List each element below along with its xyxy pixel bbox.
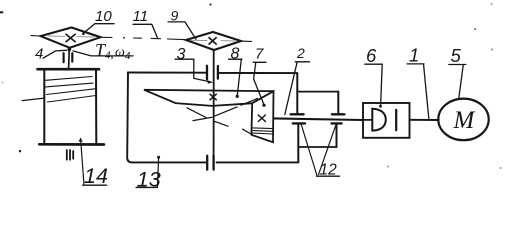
coupling 12b lower half [332,123,342,147]
wheel 9 (right rhombus) [186,32,241,50]
wire (vertical shaft from wheel 9) [213,50,215,156]
coupling (gearbox top line) [207,66,218,79]
svg-text:3: 3 [177,46,186,63]
brake 6 (box) [363,103,410,138]
svg-text:14: 14 [84,164,108,188]
cone generator line (dashed) [187,108,252,135]
svg-text:T4,ω4: T4,ω4 [95,40,131,62]
label 4 [35,45,67,62]
label 9 [168,7,196,39]
svg-text:7: 7 [255,46,264,63]
svg-text:6: 6 [366,45,377,66]
label 6 [365,45,383,108]
x mark on shaft [210,94,216,100]
coupling 12a lower half [293,123,305,161]
svg-text:9: 9 [171,7,179,23]
svg-text:8: 8 [231,46,240,63]
wire (stray leader to drum) [22,98,44,101]
label 12 [301,125,339,179]
drum 14 [38,69,104,144]
roller axis line (dashed) [193,99,258,121]
svg-text:4: 4 [35,45,43,62]
centerline 11 (dash-dot axis) [31,36,252,42]
coupling 12b upper half [332,92,344,115]
svg-text:1: 1 [409,44,419,65]
roller 7 [251,91,273,142]
svg-text:11: 11 [133,8,149,25]
label 14 [79,137,108,187]
label T4,w4 [73,40,133,62]
wire (drum shaft from wheel 10) [68,48,71,69]
wire (output shaft) [274,118,363,120]
bridge (upper) [297,91,338,93]
coupling 12a upper half [291,73,304,114]
label 5 [449,45,466,98]
motor 5 [438,99,488,141]
label 3 [175,46,213,84]
gearbox housing 13 (left and bottom and top run) [127,73,298,163]
bridge (lower) [298,146,336,148]
coupling (drum lower) [67,150,73,160]
label 8 [229,46,243,99]
wheel 10 (left rhombus) [41,28,101,48]
svg-text:5: 5 [451,45,462,66]
svg-text:2: 2 [296,45,305,61]
coupling (drum upper) [64,53,73,62]
label 11 [133,8,158,39]
svg-text:M: M [453,107,476,134]
scan specks [0,3,502,169]
svg-text:10: 10 [95,8,112,25]
label 10 [82,8,114,35]
label 1 [407,44,429,118]
wire (shaft 1 brake to motor) [410,119,439,121]
coupling (gearbox bottom line) [207,156,213,170]
label 7 [253,46,266,107]
node A (shaft dot under wheel 10) [67,48,71,52]
label 2 [285,45,310,115]
cone (variator cone, top view sliver) [144,90,274,106]
label 13 [136,156,161,192]
